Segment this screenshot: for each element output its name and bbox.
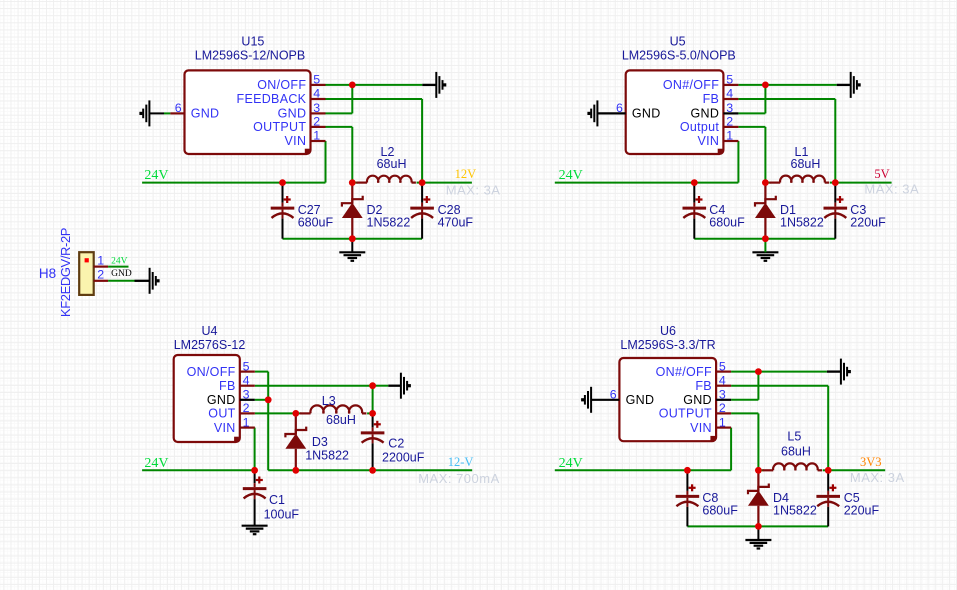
svg-text:2200uF: 2200uF xyxy=(382,451,425,465)
svg-text:2: 2 xyxy=(97,268,104,282)
svg-text:1: 1 xyxy=(719,415,726,429)
svg-text:680uF: 680uF xyxy=(298,216,334,230)
svg-text:FB: FB xyxy=(219,379,236,393)
svg-text:GND: GND xyxy=(191,107,220,121)
svg-text:OUTPUT: OUTPUT xyxy=(253,120,306,134)
svg-text:4: 4 xyxy=(313,87,320,101)
svg-text:220uF: 220uF xyxy=(844,503,880,517)
svg-text:GND: GND xyxy=(278,107,307,121)
svg-text:5V: 5V xyxy=(874,167,889,181)
svg-text:L5: L5 xyxy=(787,429,801,443)
svg-text:1: 1 xyxy=(97,254,104,268)
svg-text:68uH: 68uH xyxy=(791,157,821,171)
svg-text:1N5822: 1N5822 xyxy=(305,448,349,462)
svg-text:FB: FB xyxy=(703,92,720,106)
svg-text:24V: 24V xyxy=(144,456,168,471)
svg-text:5: 5 xyxy=(243,359,250,373)
svg-text:4: 4 xyxy=(243,373,250,387)
svg-text:U15: U15 xyxy=(241,34,264,48)
svg-text:220uF: 220uF xyxy=(850,216,886,230)
svg-text:6: 6 xyxy=(616,101,623,115)
svg-text:U4: U4 xyxy=(202,324,218,338)
svg-text:24V: 24V xyxy=(559,456,583,471)
svg-text:2: 2 xyxy=(726,115,733,129)
svg-text:2: 2 xyxy=(243,401,250,415)
svg-text:MAX: 3A: MAX: 3A xyxy=(850,470,905,485)
svg-text:24V: 24V xyxy=(559,168,583,183)
svg-text:68uH: 68uH xyxy=(781,444,811,458)
svg-text:Output: Output xyxy=(680,120,720,134)
svg-text:1: 1 xyxy=(313,129,320,143)
svg-text:KF2EDGV/R-2P: KF2EDGV/R-2P xyxy=(58,228,73,317)
svg-text:ON#/OFF: ON#/OFF xyxy=(663,78,719,92)
svg-text:VIN: VIN xyxy=(690,421,712,435)
svg-text:3: 3 xyxy=(243,388,250,402)
svg-text:680uF: 680uF xyxy=(702,503,738,517)
svg-text:GND: GND xyxy=(683,393,712,407)
svg-text:FEEDBACK: FEEDBACK xyxy=(237,92,307,106)
svg-text:GND: GND xyxy=(691,107,720,121)
svg-text:D3: D3 xyxy=(312,435,328,449)
svg-text:6: 6 xyxy=(175,101,182,115)
svg-text:100uF: 100uF xyxy=(264,508,300,522)
svg-text:680uF: 680uF xyxy=(709,216,745,230)
svg-text:U6: U6 xyxy=(660,324,676,338)
svg-text:MAX: 3A: MAX: 3A xyxy=(864,182,919,197)
svg-text:12V: 12V xyxy=(455,167,477,181)
svg-text:GND: GND xyxy=(632,107,661,121)
svg-text:C1: C1 xyxy=(269,493,285,507)
svg-text:470uF: 470uF xyxy=(438,216,474,230)
svg-text:LM2596S-12/NOPB: LM2596S-12/NOPB xyxy=(195,48,305,62)
svg-text:LM2596S-5.0/NOPB: LM2596S-5.0/NOPB xyxy=(622,48,736,62)
svg-text:L3: L3 xyxy=(322,394,336,408)
svg-text:ON/OFF: ON/OFF xyxy=(257,78,306,92)
svg-text:1: 1 xyxy=(243,415,250,429)
svg-text:ON/OFF: ON/OFF xyxy=(187,365,236,379)
svg-text:U5: U5 xyxy=(670,34,686,48)
svg-text:MAX: 3A: MAX: 3A xyxy=(446,182,501,197)
svg-text:VIN: VIN xyxy=(285,134,307,148)
svg-text:OUTPUT: OUTPUT xyxy=(659,407,712,421)
svg-text:ON#/OFF: ON#/OFF xyxy=(656,365,712,379)
svg-text:5: 5 xyxy=(313,73,320,87)
svg-text:GND: GND xyxy=(207,393,236,407)
svg-text:OUT: OUT xyxy=(208,407,235,421)
svg-text:24V: 24V xyxy=(111,256,128,266)
svg-text:1N5822: 1N5822 xyxy=(367,216,411,230)
svg-text:5: 5 xyxy=(726,73,733,87)
svg-text:LM2596S-3.3/TR: LM2596S-3.3/TR xyxy=(620,338,715,352)
svg-text:3: 3 xyxy=(719,388,726,402)
svg-text:1: 1 xyxy=(726,129,733,143)
svg-text:68uH: 68uH xyxy=(377,157,407,171)
svg-text:1N5822: 1N5822 xyxy=(773,503,817,517)
svg-text:3: 3 xyxy=(313,101,320,115)
svg-text:2: 2 xyxy=(719,401,726,415)
svg-text:4: 4 xyxy=(719,373,726,387)
svg-text:5: 5 xyxy=(719,359,726,373)
svg-text:GND: GND xyxy=(626,393,655,407)
svg-text:3: 3 xyxy=(726,101,733,115)
svg-text:68uH: 68uH xyxy=(326,413,356,427)
svg-text:MAX: 700mA: MAX: 700mA xyxy=(418,471,500,486)
svg-text:VIN: VIN xyxy=(214,421,236,435)
svg-text:3V3: 3V3 xyxy=(860,455,882,469)
svg-text:C2: C2 xyxy=(388,437,404,451)
svg-text:4: 4 xyxy=(726,87,733,101)
svg-text:GND: GND xyxy=(111,269,132,279)
svg-text:H8: H8 xyxy=(39,266,56,281)
svg-text:1N5822: 1N5822 xyxy=(780,216,824,230)
svg-text:2: 2 xyxy=(313,115,320,129)
svg-text:12-V: 12-V xyxy=(448,455,474,469)
svg-text:VIN: VIN xyxy=(697,134,719,148)
svg-text:FB: FB xyxy=(695,379,712,393)
svg-text:6: 6 xyxy=(610,388,617,402)
svg-text:24V: 24V xyxy=(144,168,168,183)
svg-text:LM2576S-12: LM2576S-12 xyxy=(174,338,246,352)
